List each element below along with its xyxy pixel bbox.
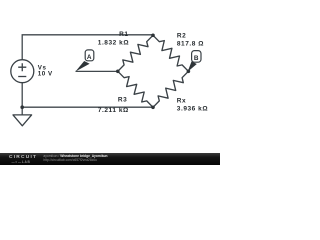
- wire node A stub: [76, 70, 118, 72]
- svg-text:A: A: [87, 54, 92, 61]
- resistor Rx: [153, 71, 188, 107]
- junction node bottom: [151, 106, 155, 110]
- svg-text:R1: R1: [119, 31, 128, 38]
- resistor R1: [118, 35, 153, 71]
- resistor R2: [153, 35, 188, 71]
- wire top horizontal from source to bridge top: [22, 35, 153, 60]
- node flag B: [188, 51, 201, 72]
- junction node A (left): [116, 70, 120, 74]
- ground stub wire: [21, 107, 23, 115]
- junction node ground: [20, 105, 24, 109]
- svg-text:1.832 kΩ: 1.832 kΩ: [98, 39, 129, 46]
- attribution line 1: [43, 154, 107, 158]
- svg-text:Rx: Rx: [177, 97, 186, 104]
- svg-text:3.936 kΩ: 3.936 kΩ: [177, 105, 208, 112]
- svg-text:R2: R2: [177, 33, 186, 40]
- ground: [13, 115, 32, 126]
- svg-text:B: B: [194, 55, 199, 62]
- svg-text:817.8 Ω: 817.8 Ω: [177, 40, 204, 47]
- voltage source Vs: [11, 60, 34, 83]
- watermark bar: [0, 153, 220, 166]
- resistor R3: [118, 71, 153, 107]
- CircuitLab logo: [9, 156, 37, 160]
- wire bottom horizontal from source to bridge bottom: [22, 83, 153, 107]
- node flag A: [76, 50, 94, 72]
- junction node top: [151, 34, 155, 38]
- svg-text:R3: R3: [118, 97, 127, 104]
- attribution line 2: [43, 158, 97, 162]
- svg-text:10 V: 10 V: [38, 70, 53, 77]
- junction node B (right): [187, 70, 191, 74]
- svg-text:7.211 kΩ: 7.211 kΩ: [98, 107, 129, 114]
